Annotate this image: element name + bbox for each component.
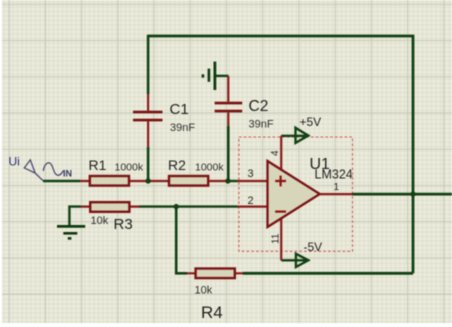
op-amp plus symbol <box>275 176 286 187</box>
svg-text:4: 4 <box>270 150 281 156</box>
wire: node B to op-amp pin3 <box>227 180 238 182</box>
resistor R4 <box>196 269 235 279</box>
capacitor C2 top pin <box>227 76 229 102</box>
resistor R3 pins <box>81 206 140 208</box>
svg-text:11: 11 <box>271 233 282 244</box>
svg-text:1: 1 <box>334 182 340 193</box>
power -5V arrow <box>296 254 308 267</box>
svg-text:1000k: 1000k <box>115 162 144 174</box>
capacitor C1 top pin <box>147 94 149 111</box>
wire: input from source to R1 <box>43 180 80 182</box>
svg-text:R3: R3 <box>114 216 133 233</box>
junction node B (R2/C2/pin3) <box>225 178 230 183</box>
resistor R1 pins <box>80 180 169 182</box>
resistor R2 right pin <box>209 180 228 182</box>
wire: R4 right to right vertical <box>243 272 413 275</box>
svg-text:1000k: 1000k <box>195 162 224 174</box>
ground (left, below R3) <box>57 226 85 238</box>
ground (top, rotated, at C2) <box>203 62 215 90</box>
sine wave symbol <box>43 163 63 175</box>
svg-text:R2: R2 <box>168 157 186 173</box>
op-amp U1 pin11 lead <box>280 218 282 260</box>
svg-text:39nF: 39nF <box>170 122 195 134</box>
resistor R1 <box>90 176 129 186</box>
svg-text:2: 2 <box>248 195 254 207</box>
svg-text:R4: R4 <box>201 303 223 322</box>
resistor R3 <box>90 202 129 212</box>
svg-text:+5V: +5V <box>300 115 322 129</box>
wire: ground up to R3 left <box>69 207 81 227</box>
wire: C1 bottom lead (green section) to node A <box>147 147 150 181</box>
svg-text:C1: C1 <box>170 101 189 118</box>
op-amp output pin1 lead <box>320 193 353 195</box>
wire: pin11 corner to -5V arrow <box>281 259 308 261</box>
svg-text:-5V: -5V <box>304 240 323 254</box>
junction node D (output/feedback) <box>410 191 415 196</box>
op-amp U1 body <box>268 161 320 227</box>
svg-text:3: 3 <box>248 168 254 180</box>
svg-text:10k: 10k <box>195 284 213 296</box>
wire: op-amp output to right edge <box>352 193 452 196</box>
capacitor C1 bottom pin <box>147 121 149 146</box>
op-amp minus symbol <box>275 211 286 213</box>
wire: pin4 corner to +5V arrow <box>281 135 308 137</box>
svg-text:LM324: LM324 <box>315 168 353 182</box>
junction node C (R3/pin2/R4) <box>174 204 179 209</box>
capacitor C1 <box>133 111 163 122</box>
wire: node C down to R4 left <box>176 207 187 274</box>
svg-text:C2: C2 <box>249 98 269 115</box>
resistor R4 pins <box>187 272 243 274</box>
capacitor C2 <box>215 102 243 113</box>
capacitor C2 bottom pin <box>227 112 229 125</box>
wire: C2 bottom lead (green) down to node B <box>227 126 230 181</box>
svg-text:IN: IN <box>63 169 72 179</box>
dashed selection box around U1 <box>239 137 353 251</box>
op-amp pin3 lead <box>238 180 269 182</box>
svg-text:39nF: 39nF <box>249 119 274 131</box>
svg-text:R1: R1 <box>89 157 107 173</box>
svg-text:10k: 10k <box>91 215 109 227</box>
wire: top feedback loop from C1 branch to right vertical <box>148 36 413 273</box>
svg-text:Ui: Ui <box>9 155 20 169</box>
wire: ground stub to C2 top <box>215 75 229 77</box>
resistor R2 <box>169 176 208 186</box>
wire: R3 right to op-amp pin2 through node C <box>139 205 238 207</box>
power +5V arrow <box>296 128 309 143</box>
op-amp pin2 lead <box>238 206 269 208</box>
junction node A (R1/R2/C1) <box>145 178 150 183</box>
generator probe Ui triangle <box>24 160 43 181</box>
op-amp U1 pin4 lead <box>280 136 282 170</box>
wire: C1 top lead (green section) <box>147 35 150 94</box>
